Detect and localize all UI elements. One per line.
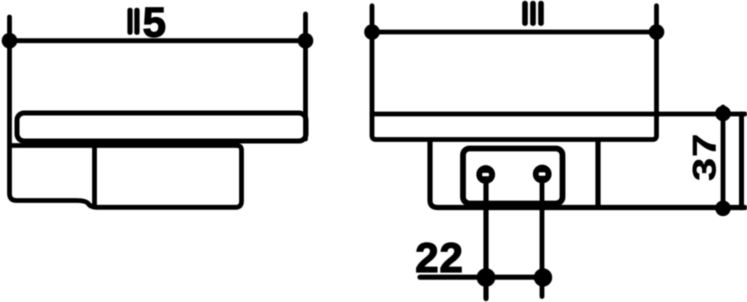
svg-text:5: 5 <box>143 0 166 46</box>
svg-text:22: 22 <box>415 234 463 281</box>
svg-text:37: 37 <box>686 133 723 181</box>
